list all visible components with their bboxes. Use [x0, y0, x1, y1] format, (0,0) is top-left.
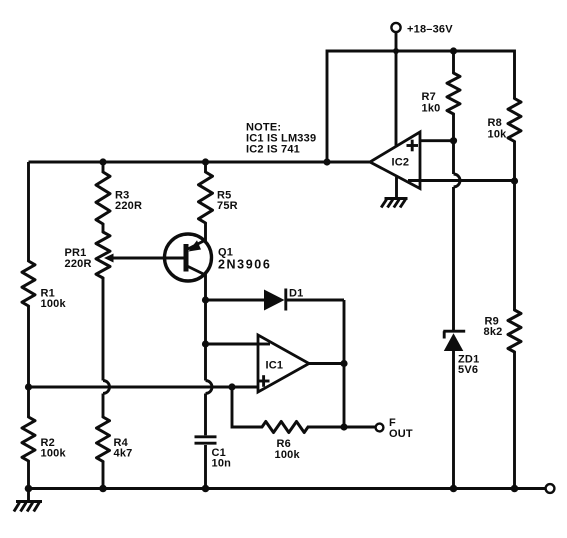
- diode D1: [206, 289, 345, 311]
- svg-text:+18–36V: +18–36V: [407, 24, 453, 36]
- op-amp IC2: [370, 132, 420, 189]
- label ZD1 5V6: [458, 354, 479, 377]
- op-amp IC1: [258, 335, 309, 392]
- wire IC1 output: [309, 362, 344, 365]
- label R5 75R: [217, 190, 238, 213]
- svg-text:5V6: 5V6: [458, 364, 478, 376]
- resistor R4: [97, 417, 110, 462]
- wire top supply bus: [327, 51, 515, 162]
- wire IC2 non-inverting input to R7: [420, 139, 454, 142]
- svg-text:OUT: OUT: [389, 428, 413, 440]
- svg-text:IC2: IC2: [392, 157, 410, 169]
- node R5 top junction: [202, 158, 209, 165]
- wire IC2 inverting input to R8/R9: [408, 179, 515, 182]
- transistor Q1 2N3906: [165, 234, 212, 281]
- node R6 branch junction: [228, 383, 235, 390]
- potentiometer PR1: [96, 232, 110, 278]
- node IC2 +in / R7 / zener column junction: [450, 137, 457, 144]
- svg-text:220R: 220R: [115, 200, 142, 212]
- wire left rail: [27, 162, 30, 489]
- wire IC2 V+ supply: [395, 51, 398, 146]
- node R8/R9 junction: [511, 177, 518, 184]
- note text block: [246, 122, 316, 156]
- wire R3 top lead: [102, 162, 105, 232]
- label C1 10n: [212, 447, 232, 470]
- node IC1 inverting input junction: [202, 340, 209, 347]
- node IC1 output junction: [340, 360, 347, 367]
- label +18-36V: [407, 24, 453, 36]
- label R6 100k: [275, 438, 301, 461]
- zener diode ZD1 5V6: [443, 331, 465, 488]
- wire non-inverting input bus: [29, 386, 259, 389]
- wire R4 bottom lead: [102, 462, 105, 489]
- wire IC2 output bus: [29, 161, 371, 164]
- resistor R8: [508, 99, 521, 142]
- node D1 branch junction: [202, 296, 209, 303]
- svg-text:10k: 10k: [488, 129, 508, 141]
- wiper arrow PR1: [104, 254, 114, 263]
- wire IC2 ground stub: [395, 177, 398, 199]
- capacitor C1: [195, 437, 217, 489]
- resistor R6: [262, 422, 308, 433]
- svg-text:R7: R7: [422, 91, 436, 103]
- ground IC2: [381, 199, 407, 208]
- label R7 1k0: [422, 91, 441, 115]
- resistor R9: [508, 310, 521, 352]
- label R1 100k: [41, 288, 67, 311]
- svg-text:D1: D1: [289, 288, 303, 300]
- label R9 8k2: [484, 316, 503, 339]
- node ZD1 bottom junction: [450, 485, 458, 493]
- wire R6 to output terminal: [308, 426, 376, 429]
- wire IC1 inverting input: [206, 343, 271, 346]
- svg-text:R8: R8: [488, 117, 502, 129]
- label R8 10k: [488, 117, 508, 141]
- resistor R7: [447, 73, 460, 114]
- wire bottom ground bus: [29, 487, 546, 490]
- svg-text:4k7: 4k7: [114, 448, 133, 460]
- wire R6 left branch: [232, 387, 262, 427]
- node R4 bottom junction: [99, 485, 107, 493]
- node C1 bottom junction: [202, 485, 210, 493]
- resistor R1: [22, 261, 35, 306]
- wire zener column with crossover hop: [454, 141, 461, 330]
- svg-text:100k: 100k: [41, 298, 67, 310]
- svg-text:10n: 10n: [212, 458, 232, 470]
- wire R7 leads: [452, 51, 455, 141]
- label R4 4k7: [114, 437, 133, 460]
- power terminal +18-36V: [391, 23, 400, 51]
- svg-text:100k: 100k: [275, 449, 301, 461]
- svg-text:220R: 220R: [65, 258, 92, 270]
- label D1: [289, 288, 303, 300]
- svg-text:2N3906: 2N3906: [218, 258, 271, 272]
- node R3 top junction: [99, 158, 106, 165]
- svg-text:100k: 100k: [41, 448, 67, 460]
- wire R9 leads: [513, 181, 516, 489]
- svg-text:1k0: 1k0: [422, 103, 441, 115]
- node R2 bottom junction: [25, 485, 33, 493]
- node R6/feedback junction: [340, 423, 347, 430]
- label F OUT: [389, 417, 413, 440]
- svg-text:IC1: IC1: [266, 360, 284, 372]
- wire Q1 collector column with hop: [206, 274, 213, 435]
- output terminal F OUT: [376, 424, 384, 432]
- label Q1 2N3906: [218, 247, 271, 272]
- wire PR1 bottom lead with hop over mid bus: [103, 278, 110, 417]
- resistor R2: [22, 417, 35, 461]
- label R3 220R: [115, 190, 142, 213]
- node R9 bottom junction: [511, 485, 519, 493]
- label PR1 220R: [65, 247, 92, 270]
- wire D1 feedback column: [343, 300, 346, 427]
- node R7 top junction: [450, 47, 457, 54]
- ground bottom left: [14, 489, 42, 512]
- svg-text:75R: 75R: [217, 200, 238, 212]
- wire R5 leads: [204, 162, 207, 241]
- svg-text:8k2: 8k2: [484, 326, 503, 338]
- label R2 100k: [41, 437, 67, 460]
- svg-text:IC2 IS 741: IC2 IS 741: [246, 144, 300, 156]
- resistor R3: [96, 172, 110, 224]
- bottom right terminal: [546, 484, 555, 493]
- node power stub junction: [393, 48, 399, 54]
- node left rail mid junction: [25, 383, 32, 390]
- wire Q1 base from PR1 wiper: [110, 257, 184, 260]
- wire R8 bottom lead: [513, 142, 516, 182]
- node bus/IC2-column junction: [323, 158, 330, 165]
- resistor R5: [199, 172, 213, 223]
